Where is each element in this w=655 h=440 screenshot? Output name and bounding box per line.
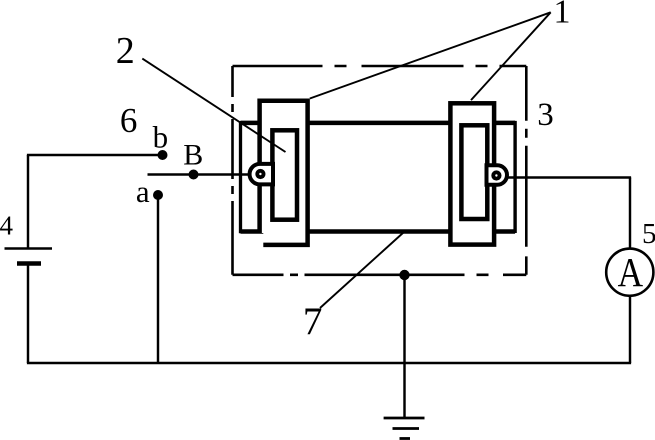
ammeter 5 circle xyxy=(606,249,653,296)
svg-text:4: 4 xyxy=(0,210,13,240)
svg-text:2: 2 xyxy=(116,30,135,72)
junction dot on shield box bottom xyxy=(399,270,409,280)
battery 4 long plate xyxy=(5,247,53,249)
wire: switch pole B to left lug xyxy=(148,173,252,175)
svg-text:b: b xyxy=(153,120,169,155)
switch contact b dot xyxy=(158,150,168,160)
left electrode plate 2 (inner) xyxy=(272,130,297,219)
cylinder (tube body) top line xyxy=(241,121,516,126)
svg-text:6: 6 xyxy=(120,101,138,140)
right electrode plate (inner) xyxy=(461,125,487,219)
wire: left vertical lower xyxy=(27,265,29,363)
wire: right vertical upper xyxy=(629,178,631,249)
leader line to 1 (left electrode) xyxy=(310,12,551,98)
ground bar 3 xyxy=(400,437,411,440)
leader line to 7 xyxy=(320,232,404,308)
right terminal lug xyxy=(487,165,507,184)
wire: bottom horizontal xyxy=(27,362,631,364)
svg-text:a: a xyxy=(136,174,150,209)
shield box 7 (dash-dot enclosure) xyxy=(233,66,527,275)
switch pole B dot xyxy=(189,170,199,180)
cylinder right end cap xyxy=(513,121,516,233)
battery 4 short plate xyxy=(17,261,41,265)
svg-text:5: 5 xyxy=(642,218,655,250)
wire: left vertical upper xyxy=(27,155,29,248)
ground bar 1 xyxy=(384,417,425,420)
svg-text:3: 3 xyxy=(537,97,554,133)
svg-text:7: 7 xyxy=(303,300,323,343)
left terminal lug xyxy=(250,164,273,185)
left lug hole xyxy=(255,169,265,179)
wire: to switch contact b xyxy=(27,154,163,156)
wire: from contact a down to bottom wire xyxy=(157,195,159,363)
cylinder left end cap xyxy=(239,121,242,233)
svg-text:1: 1 xyxy=(554,0,571,30)
leader line to 2 xyxy=(142,59,285,152)
svg-text:A: A xyxy=(618,250,644,295)
svg-text:B: B xyxy=(183,139,203,172)
ground bar 2 xyxy=(393,427,420,430)
wire: right horizontal to electrode xyxy=(505,176,631,178)
cylinder bottom line xyxy=(241,229,516,234)
left electrode holder (outer) xyxy=(260,101,308,245)
right lug hole xyxy=(491,170,501,180)
wire: right vertical lower (to ammeter) xyxy=(629,295,631,363)
right electrode holder (outer) xyxy=(450,103,494,244)
leader line to 1 (right electrode) xyxy=(471,12,551,100)
wire: ground vertical xyxy=(403,275,405,418)
switch contact a dot xyxy=(153,190,163,200)
